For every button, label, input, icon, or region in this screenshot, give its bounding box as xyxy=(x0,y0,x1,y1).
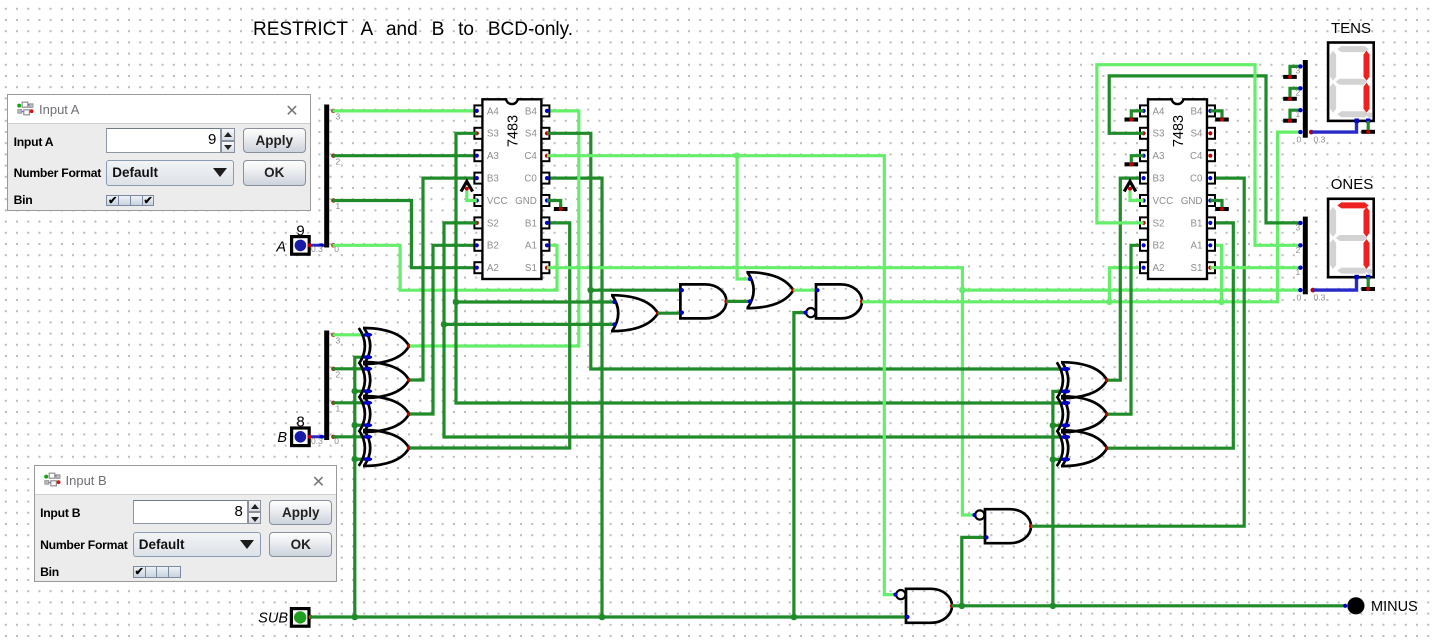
splitter ONES bit2 dot xyxy=(1298,243,1302,247)
wire S3 U2 to ONES bit3 xyxy=(1109,76,1301,223)
pin A output dot xyxy=(308,243,312,247)
splitter B bit3 dot xyxy=(331,333,335,337)
junction NAND3 out to NAND4 xyxy=(959,603,966,610)
svg-text:0.3: 0.3 xyxy=(1314,292,1326,302)
splitter A bit0 dot xyxy=(331,243,335,247)
svg-text:2: 2 xyxy=(1296,87,1301,97)
wire SUB to left XOR lower inputs xyxy=(355,357,366,617)
or gate OR1 xyxy=(611,295,660,331)
splitter A bit1 dot xyxy=(331,198,335,202)
spinner xyxy=(248,500,261,512)
wire SUB to AND2 bubble input xyxy=(794,313,806,617)
wire NAND3 out up to NAND4 lower xyxy=(962,537,987,605)
wire B4 right chip to ground xyxy=(1210,111,1222,118)
wire S1 U1 to ONES bit0 and NAND4 xyxy=(547,268,1302,290)
wire SUB xor stub G2 xyxy=(355,390,366,393)
wire G4 out to B1 left chip xyxy=(410,223,570,448)
ground symbol TENS bit2 xyxy=(1283,97,1297,101)
wire SUB to C0 left chip xyxy=(547,178,602,617)
ground symbol TENS bit3 xyxy=(1283,75,1297,79)
wire right xor stub R2 xyxy=(1053,424,1064,427)
splitter ONES bar xyxy=(1303,217,1308,295)
wire A3 right chip to ground xyxy=(1131,156,1143,163)
wire TENS bit3 to ground xyxy=(1290,66,1302,75)
svg-text:B4: B4 xyxy=(525,106,538,117)
splitter A bit2 dot xyxy=(331,154,335,158)
xor gate G2 xyxy=(359,362,411,398)
junction MINUS line to right xor cluster xyxy=(1050,603,1057,610)
pin SUB output dot xyxy=(308,615,312,619)
junction S1 line xyxy=(959,287,966,294)
pin A bus end dot xyxy=(319,243,323,247)
dialog window Input B xyxy=(34,465,338,582)
dialog icon xyxy=(17,101,34,117)
splitter ONES bit0 dot xyxy=(1298,288,1302,292)
wire ONES display ground xyxy=(1367,277,1370,287)
svg-text:B4: B4 xyxy=(1191,106,1204,117)
svg-text:MINUS: MINUS xyxy=(1371,599,1418,615)
or gate OR2 xyxy=(746,272,795,308)
svg-text:VCC: VCC xyxy=(487,196,508,207)
wire A pin to splitter (bus) xyxy=(309,244,327,247)
wire VCC U1 xyxy=(467,191,477,201)
wire G1 out to B4 left chip xyxy=(410,111,579,346)
svg-text:A1: A1 xyxy=(525,241,537,252)
wire B pin to splitter (bus) xyxy=(309,435,327,438)
svg-text:7483: 7483 xyxy=(505,115,521,147)
junction S2 line at OR1 branch xyxy=(441,321,448,328)
svg-text:A1: A1 xyxy=(1191,241,1203,252)
svg-text:VCC: VCC xyxy=(1153,196,1174,207)
wire NAND4 out to C0 right chip xyxy=(1031,178,1244,526)
ground symbol A4 U2 xyxy=(1125,117,1139,121)
input pin A xyxy=(292,237,310,255)
wire TENS bus to display xyxy=(1311,121,1356,132)
svg-text:B1: B1 xyxy=(525,218,537,229)
wire B bit3 to XOR G1 upper xyxy=(332,333,366,336)
svg-text:3: 3 xyxy=(1296,222,1301,232)
svg-text:B: B xyxy=(277,430,287,446)
wire G2 out to B3 left chip xyxy=(410,178,477,380)
wire SUB main horizontal xyxy=(309,615,906,618)
wire S1 branch down to NAND4 bubble xyxy=(962,290,975,515)
svg-text:C0: C0 xyxy=(1190,174,1203,185)
wire S1 U2 to ONES bit1 xyxy=(1210,266,1301,269)
svg-text:A3: A3 xyxy=(1153,151,1166,162)
splitter TENS bit1 dot xyxy=(1298,108,1302,112)
dialog icon xyxy=(44,472,61,488)
input pin SUB xyxy=(291,609,309,627)
svg-text:ONES: ONES xyxy=(1331,176,1374,193)
svg-text:C4: C4 xyxy=(1190,151,1203,162)
svg-text:S4: S4 xyxy=(1191,129,1204,140)
svg-text:2: 2 xyxy=(336,156,341,166)
wire A bit1 to A2 left chip xyxy=(332,201,476,268)
svg-text:RESTRICT A and B to BCD-only.: RESTRICT A and B to BCD-only. xyxy=(253,19,573,40)
junction SUB-xor branch xyxy=(352,614,359,621)
svg-text:0.3: 0.3 xyxy=(311,436,323,446)
wire R3 out to B1 right chip xyxy=(1108,223,1233,448)
and gate AND2 (inverted lower input) xyxy=(803,284,864,318)
svg-text:S1: S1 xyxy=(525,263,537,274)
wire C4 branch to OR2 upper xyxy=(737,156,750,279)
wire NAND3 out to MINUS xyxy=(952,604,1346,607)
svg-text:9: 9 xyxy=(296,223,304,240)
splitter ONES bit1 dot xyxy=(1298,266,1302,270)
splitter TENS bar xyxy=(1303,60,1308,138)
splitter TENS bit2 dot xyxy=(1298,86,1302,90)
svg-text:0: 0 xyxy=(1297,292,1302,302)
svg-text:B2: B2 xyxy=(1153,241,1165,252)
wire B bit2 to XOR G2 upper xyxy=(332,367,366,370)
svg-text:GND: GND xyxy=(515,196,537,207)
svg-text:S2: S2 xyxy=(1153,218,1165,229)
junction SUB-AND2 branch xyxy=(791,614,798,621)
wire A bit2 to A3 left chip xyxy=(332,154,476,157)
xor gate R3 xyxy=(1057,430,1109,466)
junction SUB xor G2 xyxy=(352,388,359,395)
wire A bit0 to A1 left chip xyxy=(332,245,557,290)
wire AND1 out to OR2 lower xyxy=(726,300,749,303)
xor gate G1 (B3^SUB) xyxy=(359,328,411,364)
ground symbol TENS display xyxy=(1361,130,1375,134)
wire S3 branch to OR1 upper xyxy=(456,300,614,303)
IC U1 7483 (ones adder) xyxy=(474,98,549,279)
ground symbol TENS bit1 xyxy=(1283,119,1297,123)
wire GND U1 xyxy=(547,201,561,208)
splitter B bit1 dot xyxy=(331,401,335,405)
svg-text:A4: A4 xyxy=(487,106,500,117)
svg-text:C0: C0 xyxy=(524,174,537,185)
junction SUB-C0 branch xyxy=(599,614,606,621)
wire S2 U1 to OR1 and XOR R3 xyxy=(444,223,1064,437)
ground symbol U1 GND xyxy=(554,207,568,211)
wire OR1 out to AND1 lower xyxy=(658,312,682,315)
wire TENS bit1 to ground xyxy=(1290,110,1302,119)
svg-text:0: 0 xyxy=(1297,134,1302,144)
pin B output dot xyxy=(308,435,312,439)
svg-text:A: A xyxy=(275,240,286,256)
svg-text:GND: GND xyxy=(1181,196,1203,207)
splitter B bit2 dot xyxy=(331,367,335,371)
junction S3 line at OR1 branch xyxy=(453,299,460,306)
splitter ONES root dot xyxy=(1311,288,1316,293)
wire S4 U1 to AND1 and XOR R1 xyxy=(547,133,1064,369)
svg-text:0.3: 0.3 xyxy=(1314,134,1326,144)
xor gate G4 xyxy=(359,430,411,466)
svg-text:S3: S3 xyxy=(1153,129,1166,140)
and gate NAND3 (inverted upper input) xyxy=(893,589,954,623)
junction C4 line at OR2 branch xyxy=(734,152,741,159)
wire SUB xor stub G4 xyxy=(355,458,366,461)
xor gate R2 xyxy=(1057,396,1109,432)
wire GND U2 xyxy=(1210,201,1222,208)
svg-text:S3: S3 xyxy=(487,129,500,140)
ground symbol U2 GND xyxy=(1215,207,1229,211)
seven segment display ONES (digit 7) xyxy=(1328,199,1374,279)
spinner xyxy=(221,128,234,140)
and gate NAND4 (inverted upper input) xyxy=(972,509,1033,543)
svg-text:B2: B2 xyxy=(487,241,499,252)
svg-text:3: 3 xyxy=(336,336,341,346)
wire B bit1 to XOR G3 upper xyxy=(332,401,366,404)
wire S2 branch to OR1 lower xyxy=(444,323,614,326)
wire AND2 out (tens enable) long line xyxy=(862,132,1302,302)
wire R1 out to B3 right chip xyxy=(1108,178,1144,380)
svg-text:B3: B3 xyxy=(487,174,500,185)
wire B bit0 to XOR G4 upper xyxy=(332,435,366,438)
svg-text:S2: S2 xyxy=(487,218,499,229)
svg-text:7483: 7483 xyxy=(1171,115,1187,147)
svg-text:SUB: SUB xyxy=(258,610,288,626)
wire G3 out to B2 left chip xyxy=(410,245,477,414)
splitter TENS bit0 dot xyxy=(1298,130,1302,134)
svg-text:2: 2 xyxy=(336,370,341,380)
wire C4 U1 to NAND3 bubble xyxy=(547,156,896,595)
ground symbol B4 U2 xyxy=(1215,117,1229,121)
wire TENS bit2 to ground xyxy=(1290,88,1302,97)
junction right xor R3 xyxy=(1050,456,1057,463)
wire R2 out to B2 right chip xyxy=(1108,245,1144,414)
wire S4 branch to AND1 upper xyxy=(591,289,682,292)
svg-text:1: 1 xyxy=(1296,267,1301,277)
xor gate G3 xyxy=(359,396,411,432)
wire branch to A2 right chip xyxy=(1109,268,1143,302)
wire TENS display ground xyxy=(1367,121,1370,130)
dialog window Input A xyxy=(7,94,311,211)
junction S4 line at AND1 branch xyxy=(588,287,595,294)
junction SUB xor G4 xyxy=(352,456,359,463)
junction right xor R2 xyxy=(1050,422,1057,429)
splitter A bit3 dot xyxy=(331,109,335,113)
splitter ONES bit3 dot xyxy=(1298,221,1302,225)
junction AND2 line at A1 right branch xyxy=(1218,299,1225,306)
svg-text:S4: S4 xyxy=(525,129,538,140)
svg-text:8: 8 xyxy=(296,414,304,431)
wire SUB xor stub G3 xyxy=(355,424,366,427)
wire OR2 out to AND2 upper xyxy=(793,289,817,292)
wire A4 right chip to ground xyxy=(1131,111,1143,118)
svg-text:1: 1 xyxy=(336,201,341,211)
svg-text:1: 1 xyxy=(1296,109,1301,119)
svg-text:A2: A2 xyxy=(487,263,499,274)
svg-text:A2: A2 xyxy=(1153,263,1165,274)
seven segment display TENS (digit 1) xyxy=(1328,43,1374,123)
splitter B bit0 dot xyxy=(331,435,335,439)
and gate AND1 xyxy=(680,284,729,318)
wire S3 U1 to OR1 and XOR R2 xyxy=(456,133,1064,403)
svg-text:A3: A3 xyxy=(487,151,500,162)
svg-text:1: 1 xyxy=(336,404,341,414)
wire S2 U2 to ONES bit2 xyxy=(1097,65,1302,246)
power symbol VCC U2 xyxy=(1124,182,1136,192)
svg-text:0.3: 0.3 xyxy=(311,244,323,254)
xor gate R1 xyxy=(1057,362,1109,398)
ground symbol A3 U2 xyxy=(1125,162,1139,166)
IC U2 7483 (tens adder) xyxy=(1140,98,1215,279)
wire VCC U2 xyxy=(1130,191,1144,201)
wire A bit3 to A4 left chip xyxy=(332,109,476,112)
pin B bus end dot xyxy=(319,435,323,439)
ground symbol ONES display xyxy=(1361,287,1375,291)
svg-text:A4: A4 xyxy=(1153,106,1166,117)
output pin MINUS xyxy=(1343,597,1364,614)
svg-text:B1: B1 xyxy=(1191,218,1203,229)
wire branch to A1 right chip xyxy=(1210,245,1221,301)
wire ONES bus to display xyxy=(1313,277,1357,290)
splitter A bar xyxy=(324,105,329,248)
power symbol VCC U1 xyxy=(461,182,473,192)
svg-text:C4: C4 xyxy=(524,151,537,162)
svg-text:B3: B3 xyxy=(1153,174,1166,185)
svg-text:TENS: TENS xyxy=(1331,20,1371,37)
splitter B bar xyxy=(324,331,329,441)
wire MINUS line to right XOR lower inputs xyxy=(1053,391,1064,605)
junction SUB xor G3 xyxy=(352,422,359,429)
junction AND2 line at A2 right branch xyxy=(1106,299,1113,306)
svg-text:S1: S1 xyxy=(1191,263,1203,274)
input pin B xyxy=(292,428,310,446)
svg-text:2: 2 xyxy=(1296,245,1301,255)
splitter TENS root dot xyxy=(1309,130,1314,135)
splitter TENS bit3 dot xyxy=(1298,64,1302,68)
svg-text:3: 3 xyxy=(1296,65,1301,75)
wire right xor stub R3 xyxy=(1053,458,1064,461)
svg-text:3: 3 xyxy=(336,112,341,122)
